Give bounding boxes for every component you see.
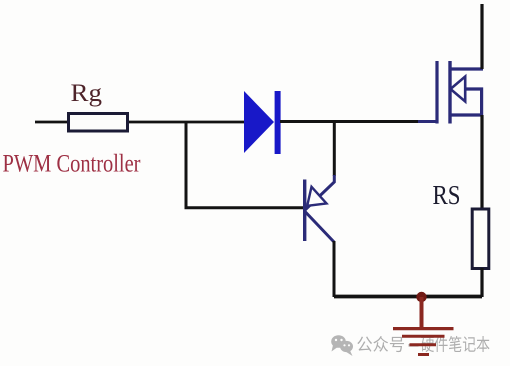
wire branch down from node to base wire xyxy=(186,122,304,208)
diode D1 cathode bar xyxy=(275,91,281,154)
transistor Q1 (PNP) xyxy=(305,175,335,242)
wire gate segment (navy part) xyxy=(418,120,437,123)
wire Rg to diode xyxy=(129,121,245,124)
svg-text:Rg: Rg xyxy=(71,80,103,107)
wire diode to gate (black part) xyxy=(280,120,420,123)
base bar xyxy=(303,180,306,242)
drain stub xyxy=(450,67,483,70)
wire drain up to top edge xyxy=(480,4,483,69)
wire source down to RS xyxy=(480,115,483,208)
ground xyxy=(393,292,454,355)
gate line xyxy=(435,61,438,124)
emitter arrow xyxy=(307,187,326,206)
svg-text:RS: RS xyxy=(433,180,461,210)
resistor Rg xyxy=(69,114,128,132)
watermark separator dash xyxy=(409,344,419,347)
watermark logo (chat bubbles) xyxy=(331,335,353,356)
wire RS bottom xyxy=(480,268,483,297)
svg-text:PWM Controller: PWM Controller xyxy=(3,151,142,178)
collector diagonal xyxy=(305,212,334,243)
body arrow xyxy=(451,77,466,102)
channel line xyxy=(448,61,451,124)
diode D1 anode triangle xyxy=(244,91,274,153)
wire collector vertical down to bottom wire xyxy=(333,241,336,297)
wire input left to Rg xyxy=(35,121,67,124)
bottom wire xyxy=(334,295,482,299)
body wire to source xyxy=(465,89,482,115)
source stub xyxy=(450,113,483,116)
emitter diagonal xyxy=(305,175,334,210)
MOSFET Q2 (N-channel) xyxy=(437,61,483,124)
wire emitter vertical up to top wire xyxy=(333,121,336,176)
resistor RS xyxy=(472,209,489,269)
svg-text:公众号: 公众号 xyxy=(357,336,406,355)
